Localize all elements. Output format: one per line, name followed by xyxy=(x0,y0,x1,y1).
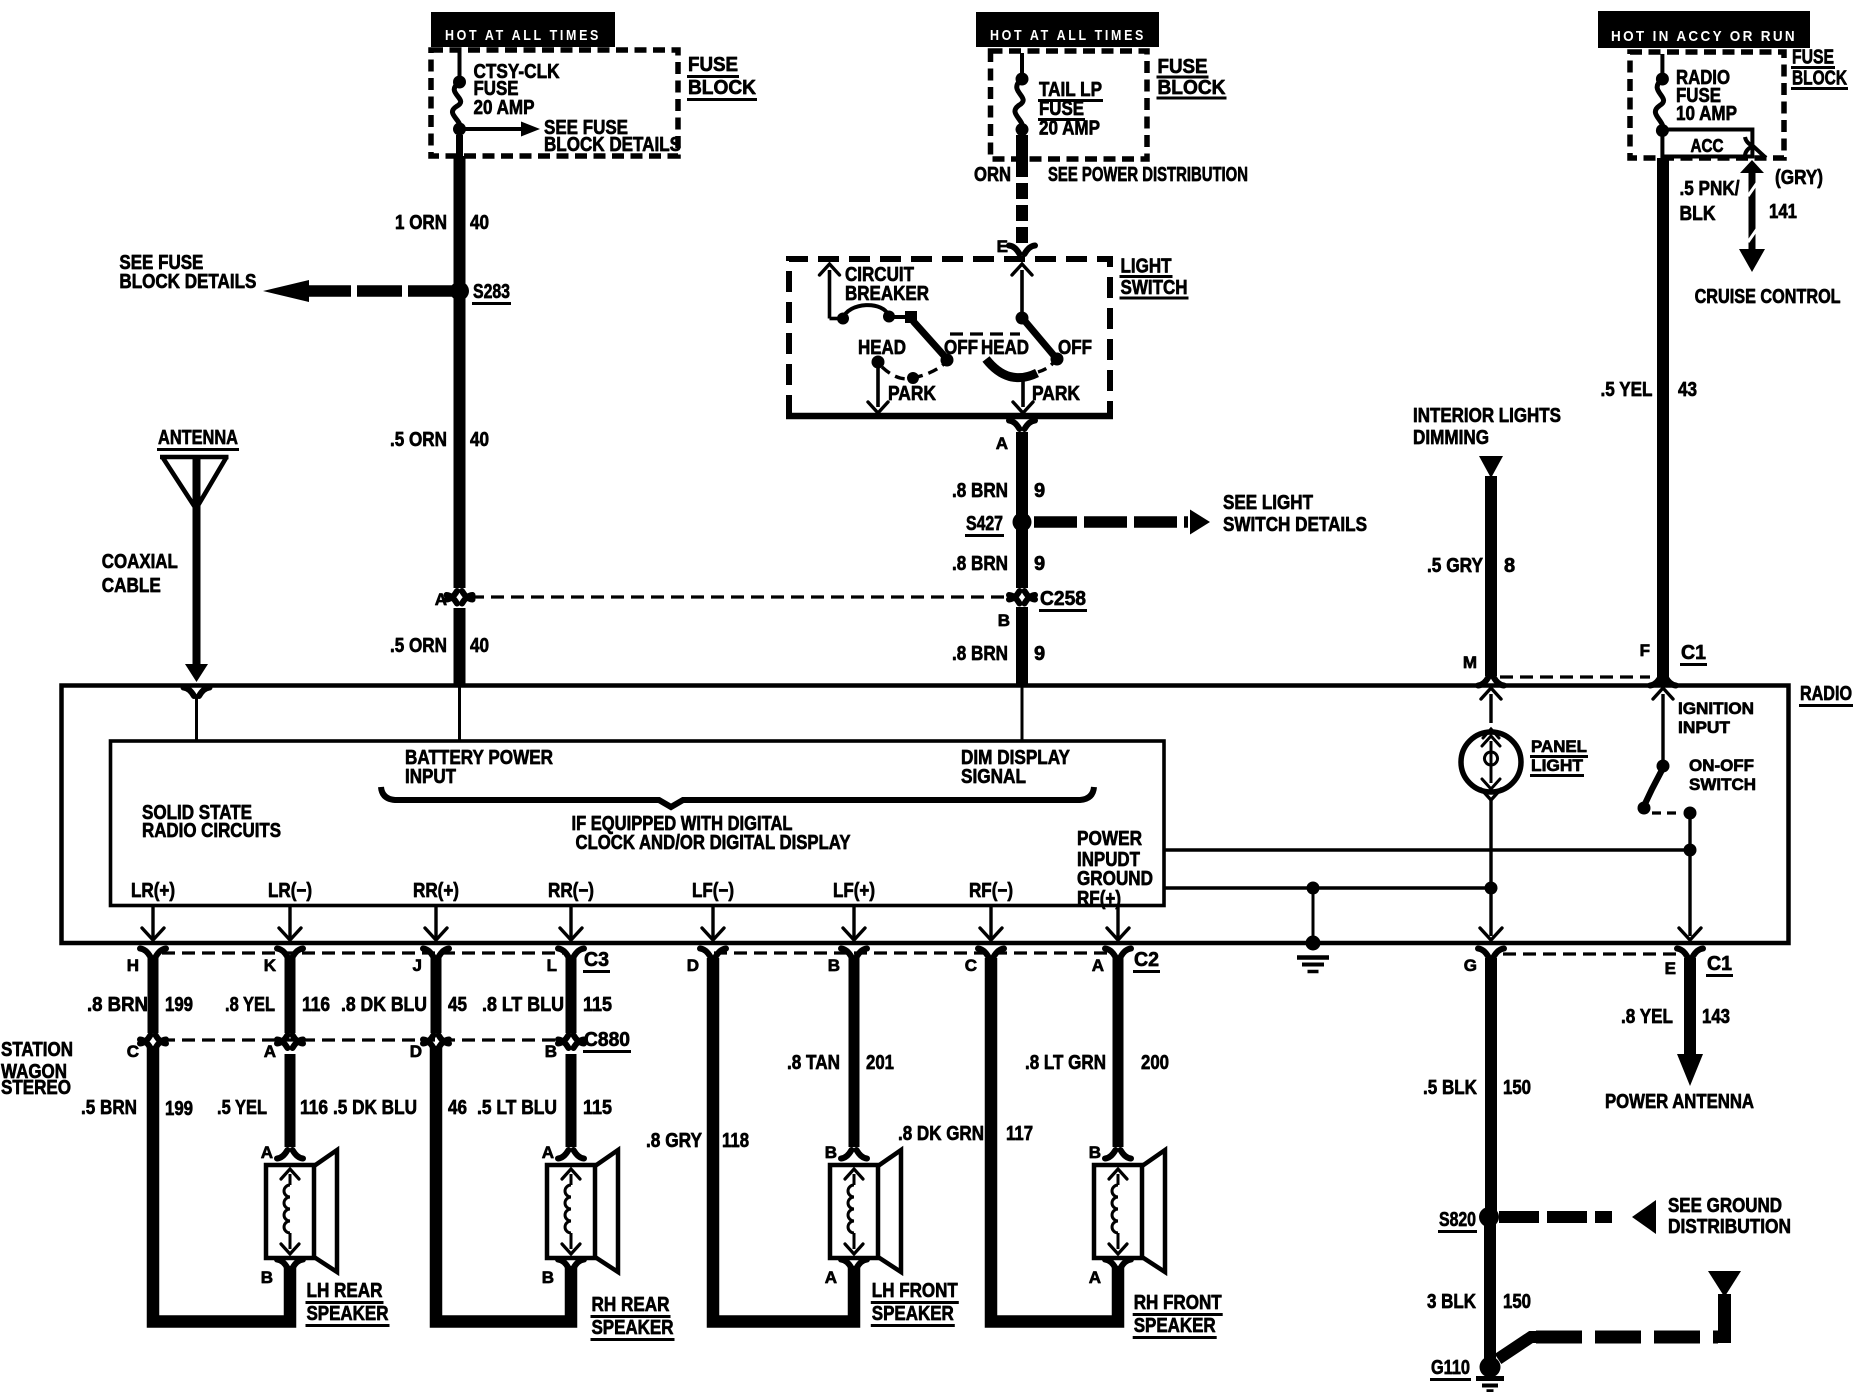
svg-text:HOT AT ALL TIMES: HOT AT ALL TIMES xyxy=(445,27,601,44)
label RADIO xyxy=(1799,683,1853,706)
radio internal line to on-off switch output xyxy=(1165,844,1697,857)
label FUSE BLOCK (right) xyxy=(1791,47,1848,90)
svg-text:117: 117 xyxy=(1006,1123,1033,1145)
panel light bulb xyxy=(1461,688,1521,940)
label CRUISE CONTROL xyxy=(1695,286,1841,308)
svg-text:BLOCK: BLOCK xyxy=(688,77,757,99)
pin label LF(+) xyxy=(833,880,875,902)
label FUSE BLOCK (left) xyxy=(687,54,757,100)
connector E at light switch xyxy=(997,237,1035,256)
svg-text:(GRY): (GRY) xyxy=(1775,167,1823,189)
svg-text:116: 116 xyxy=(302,994,330,1016)
svg-text:201: 201 xyxy=(866,1052,894,1074)
svg-text:SEE GROUND: SEE GROUND xyxy=(1668,1195,1782,1217)
svg-text:INTERIOR LIGHTS: INTERIOR LIGHTS xyxy=(1413,405,1561,427)
label PANEL LIGHT xyxy=(1530,737,1588,776)
svg-text:116: 116 xyxy=(300,1097,328,1119)
speaker RH FRONT xyxy=(1089,1143,1223,1338)
PARK output arrow (right) xyxy=(1013,378,1033,413)
svg-text:SEE LIGHT: SEE LIGHT xyxy=(1223,492,1313,514)
dashed line A to C258 xyxy=(471,595,1007,598)
label CTSY-CLK FUSE 20 AMP xyxy=(474,61,560,119)
wire .8 LT BLU 115 xyxy=(566,958,577,1033)
connector C (radio output) xyxy=(965,949,1004,976)
label .5 PNK/ BLK 141 xyxy=(1680,178,1798,225)
svg-text:SWITCH DETAILS: SWITCH DETAILS xyxy=(1223,514,1367,536)
connector row C1 dashed line (G to E) xyxy=(1503,952,1676,955)
ground G110 xyxy=(1430,1357,1504,1392)
radio outer box xyxy=(62,686,1789,944)
label IGNITION INPUT xyxy=(1678,699,1754,737)
svg-text:B: B xyxy=(261,1268,273,1287)
wire .5 ORN 40 (lower) xyxy=(454,608,466,685)
pin arrow LF(+) to connector xyxy=(843,907,865,940)
speaker RH REAR xyxy=(542,1143,675,1340)
thick travel arc HEAD-PARK (right) xyxy=(986,359,1037,378)
label COAXIAL CABLE xyxy=(102,551,178,597)
svg-text:141: 141 xyxy=(1769,201,1797,223)
svg-text:.8 YEL: .8 YEL xyxy=(1621,1006,1673,1028)
svg-text:ON-OFF: ON-OFF xyxy=(1689,756,1754,775)
dashed arrow SEE GROUND DISTRIBUTION xyxy=(1499,1200,1656,1234)
svg-text:LH REAR: LH REAR xyxy=(307,1280,383,1302)
fuse block box (middle, dashed) xyxy=(991,51,1148,159)
svg-text:SWITCH: SWITCH xyxy=(1121,277,1188,299)
svg-text:.8 YEL: .8 YEL xyxy=(225,994,275,1016)
svg-text:118: 118 xyxy=(722,1130,749,1152)
label (GRY) xyxy=(1775,167,1823,189)
connector F (C1) at radio xyxy=(1640,641,1707,686)
connector row C3 dashed line xyxy=(162,951,1110,954)
label .5 ORN 40 (upper) xyxy=(390,429,489,451)
svg-text:LR(+): LR(+) xyxy=(131,880,175,902)
svg-text:C2: C2 xyxy=(1134,949,1159,971)
svg-text:A: A xyxy=(1092,956,1104,975)
svg-text:S427: S427 xyxy=(966,513,1003,535)
svg-text:40: 40 xyxy=(470,635,489,657)
connector row C880 dashed line xyxy=(162,1038,560,1041)
svg-text:FUSE: FUSE xyxy=(1792,47,1834,69)
svg-text:9: 9 xyxy=(1034,553,1045,575)
svg-text:STATION: STATION xyxy=(1,1039,73,1061)
label .5 DK BLU 46 xyxy=(333,1097,467,1119)
svg-text:ANTENNA: ANTENNA xyxy=(158,427,238,449)
svg-text:199: 199 xyxy=(165,994,193,1016)
svg-text:200: 200 xyxy=(1141,1052,1169,1074)
svg-text:PARK: PARK xyxy=(1032,383,1080,405)
svg-text:J: J xyxy=(413,956,422,975)
dashed line M to F (C1) xyxy=(1500,675,1650,678)
wire .8 DK BLU 45 xyxy=(431,958,442,1033)
wire .8 YEL 143 (E to power antenna) xyxy=(1677,958,1703,1086)
wire .8 BRN 9 (light switch to radio) xyxy=(1016,432,1028,685)
svg-text:45: 45 xyxy=(448,994,467,1016)
svg-text:OFF: OFF xyxy=(1058,337,1092,359)
power feed label HOT AT ALL TIMES (middle) xyxy=(976,12,1159,47)
label .8 TAN 201 xyxy=(787,1052,894,1074)
svg-text:.8 LT GRN: .8 LT GRN xyxy=(1025,1052,1106,1074)
svg-text:115: 115 xyxy=(583,994,612,1016)
svg-text:S820: S820 xyxy=(1439,1209,1476,1231)
svg-text:.5 GRY: .5 GRY xyxy=(1427,555,1484,577)
wire .5 LT BLU 115 (B to RH rear speaker) xyxy=(566,1054,577,1147)
svg-text:A: A xyxy=(261,1143,273,1162)
svg-text:RADIO CIRCUITS: RADIO CIRCUITS xyxy=(142,820,281,842)
svg-text:RR(−): RR(−) xyxy=(548,880,594,902)
svg-text:BLOCK DETAILS: BLOCK DETAILS xyxy=(544,134,681,156)
svg-text:C3: C3 xyxy=(584,949,609,971)
svg-text:.8 BRN: .8 BRN xyxy=(952,643,1008,665)
dashed ground strap to body xyxy=(1498,1271,1741,1359)
label POWER INPUDT GROUND RF(+) xyxy=(1077,828,1153,910)
wire .8 YEL 116 xyxy=(285,958,296,1033)
wire 3 BLK 150 (S820 to G110) xyxy=(1484,1221,1496,1360)
label SEE LIGHT SWITCH DETAILS xyxy=(1223,492,1367,536)
wire .5 GRY 8 (dimming to radio M) xyxy=(1479,456,1503,676)
antenna connector inside radio xyxy=(184,688,210,742)
label FUSE BLOCK (middle) xyxy=(1157,56,1227,99)
svg-text:.5 YEL: .5 YEL xyxy=(1601,379,1653,401)
svg-text:.5 YEL: .5 YEL xyxy=(217,1097,267,1119)
svg-text:.5 DK BLU: .5 DK BLU xyxy=(333,1097,417,1119)
dashed arrow SEE LIGHT SWITCH DETAILS xyxy=(1034,510,1210,535)
radio internal ground symbol xyxy=(1297,888,1329,972)
wire battery input drop xyxy=(458,687,461,741)
label .8 DK BLU 45 xyxy=(341,994,467,1016)
connector D (C880) xyxy=(410,1035,449,1061)
svg-text:D: D xyxy=(687,956,699,975)
pin arrow LR(+) to connector xyxy=(142,907,164,940)
svg-text:.5 BLK: .5 BLK xyxy=(1423,1077,1477,1099)
connector E (power antenna C1) xyxy=(1665,949,1733,979)
svg-text:B: B xyxy=(825,1143,837,1162)
connector B (C880) xyxy=(545,1035,584,1061)
svg-text:B: B xyxy=(998,611,1010,630)
label 3 BLK 150 xyxy=(1427,1291,1531,1313)
connector C (C880) xyxy=(127,1035,166,1061)
connector A (radio output) xyxy=(1092,949,1131,976)
svg-text:20 AMP: 20 AMP xyxy=(1039,118,1100,140)
svg-text:BLK: BLK xyxy=(1680,203,1716,225)
connector D (radio output) xyxy=(687,949,726,976)
label .8 BRN 9 (upper) xyxy=(952,480,1045,502)
fuse block box (right, dashed) xyxy=(1630,52,1784,158)
svg-text:C1: C1 xyxy=(1707,953,1732,975)
svg-text:INPUT: INPUT xyxy=(1678,718,1731,737)
label .5 YEL 116 xyxy=(217,1097,328,1119)
svg-text:FUSE: FUSE xyxy=(688,54,738,76)
label TAIL LP FUSE 20 AMP xyxy=(1038,79,1103,140)
svg-text:G110: G110 xyxy=(1431,1357,1470,1379)
label .8 LT BLU 115 xyxy=(482,994,612,1016)
label INTERIOR LIGHTS DIMMING xyxy=(1413,405,1561,449)
label ORN / SEE POWER DISTRIBUTION xyxy=(974,164,1248,186)
wire .8 LT GRN 200 (A to RH front) xyxy=(1113,958,1124,1147)
label HEAD / OFF (left half) xyxy=(858,337,978,359)
fuse RADIO 10A xyxy=(1655,54,1669,137)
label .8 BRN 9 (middle) xyxy=(952,553,1045,575)
svg-text:IGNITION: IGNITION xyxy=(1678,699,1754,718)
svg-text:H: H xyxy=(127,956,139,975)
svg-text:RADIO: RADIO xyxy=(1800,683,1852,705)
svg-text:43: 43 xyxy=(1678,379,1697,401)
splice S820 xyxy=(1438,1207,1499,1232)
svg-text:HOT IN ACCY OR RUN: HOT IN ACCY OR RUN xyxy=(1611,28,1797,45)
svg-text:B: B xyxy=(1089,1143,1101,1162)
label BATTERY POWER INPUT xyxy=(405,747,553,788)
radio inner box (solid state radio circuits) xyxy=(111,741,1165,906)
svg-text:C: C xyxy=(965,956,977,975)
svg-text:RH FRONT: RH FRONT xyxy=(1134,1292,1222,1314)
svg-text:SWITCH: SWITCH xyxy=(1689,775,1756,794)
label STATION WAGON STEREO xyxy=(1,1039,73,1099)
label CIRCUIT BREAKER xyxy=(845,264,929,305)
svg-text:B: B xyxy=(828,956,840,975)
label .8 DK GRN 117 xyxy=(898,1123,1033,1145)
svg-text:LIGHT: LIGHT xyxy=(1121,256,1172,278)
connector A below light switch xyxy=(996,421,1035,454)
label .8 GRY 118 xyxy=(646,1130,749,1152)
pin arrow RF(+) to connector xyxy=(1107,907,1129,940)
pin arrow RR(+) to connector xyxy=(425,907,447,940)
label C3 xyxy=(583,949,610,972)
connector B (radio output) xyxy=(828,949,867,976)
svg-text:POWER ANTENNA: POWER ANTENNA xyxy=(1605,1091,1754,1113)
dashed link between switch halves xyxy=(950,332,1020,335)
svg-text:40: 40 xyxy=(470,212,489,234)
label .8 LT GRN 200 xyxy=(1025,1052,1169,1074)
label .5 ORN 40 (lower) xyxy=(390,635,489,657)
radio internal ground line xyxy=(1165,882,1498,895)
svg-text:.5 LT BLU: .5 LT BLU xyxy=(477,1097,557,1119)
svg-text:POWER: POWER xyxy=(1077,828,1142,850)
svg-text:LR(−): LR(−) xyxy=(268,880,312,902)
label .5 YEL 43 xyxy=(1601,379,1698,401)
svg-text:LH FRONT: LH FRONT xyxy=(872,1280,958,1302)
splice S427 xyxy=(965,513,1032,536)
label .5 BRN 199 xyxy=(81,1097,193,1120)
label .5 LT BLU 115 xyxy=(477,1097,612,1119)
svg-text:L: L xyxy=(547,956,557,975)
svg-text:9: 9 xyxy=(1034,643,1045,665)
svg-text:RF(+): RF(+) xyxy=(1077,888,1121,910)
svg-text:.8 BRN: .8 BRN xyxy=(952,480,1008,502)
svg-text:.8 TAN: .8 TAN xyxy=(787,1052,840,1074)
label SEE FUSE BLOCK DETAILS (left) xyxy=(119,252,256,293)
fuse TAIL LP 20A xyxy=(1015,53,1029,161)
switch wiper (left half) to OFF xyxy=(913,321,954,367)
svg-text:HOT AT ALL TIMES: HOT AT ALL TIMES xyxy=(990,27,1146,44)
svg-text:A: A xyxy=(542,1143,554,1162)
svg-text:RH REAR: RH REAR xyxy=(592,1294,670,1316)
pin label RF(−) xyxy=(969,880,1013,902)
label DIM DISPLAY SIGNAL xyxy=(961,747,1071,788)
svg-text:FUSE: FUSE xyxy=(1158,56,1208,78)
connector G (radio ground output) xyxy=(1464,949,1504,976)
connector L (radio output) xyxy=(547,949,584,976)
svg-text:143: 143 xyxy=(1702,1006,1730,1028)
svg-text:B: B xyxy=(545,1042,557,1061)
svg-text:BLOCK: BLOCK xyxy=(1158,77,1227,99)
svg-text:C: C xyxy=(127,1042,139,1061)
svg-text:K: K xyxy=(264,956,277,975)
svg-text:PARK: PARK xyxy=(888,383,936,405)
svg-text:.5 BRN: .5 BRN xyxy=(81,1097,137,1119)
power feed label HOT IN ACCY OR RUN xyxy=(1598,11,1810,48)
circuit breaker (arrow + contacts arc) xyxy=(820,264,918,325)
dashed travel arc with PARK contact (left) xyxy=(882,364,944,384)
svg-text:.8 BRN: .8 BRN xyxy=(952,553,1008,575)
svg-text:SPEAKER: SPEAKER xyxy=(307,1303,389,1325)
pin arrow RF(−) to connector xyxy=(980,907,1002,940)
arrow SEE FUSE BLOCK DETAILS (inside fuse block) xyxy=(463,117,681,156)
svg-text:199: 199 xyxy=(165,1098,193,1120)
speaker LH FRONT xyxy=(825,1143,959,1326)
svg-text:LIGHT: LIGHT xyxy=(1531,756,1584,775)
svg-text:G: G xyxy=(1464,956,1477,975)
power feed label HOT AT ALL TIMES (left) xyxy=(431,12,615,47)
svg-text:F: F xyxy=(1640,641,1650,660)
switch wiper (right half) to OFF xyxy=(1024,320,1064,366)
wire .8 BRN 199 xyxy=(148,958,159,1033)
connector H (radio output) xyxy=(127,949,166,976)
svg-text:M: M xyxy=(1463,653,1477,672)
svg-text:SPEAKER: SPEAKER xyxy=(1134,1315,1216,1337)
wire .5 PNK/BLK and .5 YEL (right feed to radio F) xyxy=(1657,158,1669,685)
svg-text:DIMMING: DIMMING xyxy=(1413,427,1489,449)
svg-text:PANEL: PANEL xyxy=(1531,737,1587,756)
svg-text:SIGNAL: SIGNAL xyxy=(961,766,1026,788)
svg-text:C258: C258 xyxy=(1040,588,1086,610)
svg-text:150: 150 xyxy=(1503,1077,1531,1099)
label ON-OFF SWITCH xyxy=(1689,756,1756,794)
label .8 YEL 116 xyxy=(225,994,330,1016)
svg-text:9: 9 xyxy=(1034,480,1045,502)
svg-text:HEAD: HEAD xyxy=(858,337,906,359)
label .8 YEL 143 xyxy=(1621,1006,1730,1028)
svg-text:STEREO: STEREO xyxy=(1,1077,71,1099)
svg-text:RR(+): RR(+) xyxy=(413,880,459,902)
svg-text:CRUISE CONTROL: CRUISE CONTROL xyxy=(1695,286,1841,308)
svg-text:OFF: OFF xyxy=(944,337,978,359)
dashed arc to OFF (right) xyxy=(1038,363,1053,372)
pin arrow LF(−) to connector xyxy=(702,907,724,940)
svg-text:150: 150 xyxy=(1503,1291,1531,1313)
wire ORN dashed from fuse to light switch xyxy=(1016,161,1028,243)
wire .5 BLK 150 (G to S820) xyxy=(1485,958,1497,1213)
svg-text:.8 LT BLU: .8 LT BLU xyxy=(482,994,564,1016)
connector at ACC output xyxy=(1745,137,1766,158)
label SOLID STATE RADIO CIRCUITS xyxy=(142,802,281,842)
label C2 xyxy=(1133,949,1160,972)
svg-text:B: B xyxy=(542,1268,554,1287)
fuse block box (left, dashed) xyxy=(431,50,678,156)
antenna symbol xyxy=(157,427,239,682)
svg-text:115: 115 xyxy=(583,1097,612,1119)
label .8 BRN 199 xyxy=(87,994,193,1016)
svg-text:A: A xyxy=(825,1268,837,1287)
switch input arrow (right half) xyxy=(1012,264,1032,325)
light switch box (dashed) xyxy=(786,259,1113,416)
connector A (C880) xyxy=(264,1035,303,1061)
svg-text:LF(−): LF(−) xyxy=(692,880,734,902)
terminal box ACC xyxy=(1662,130,1752,157)
svg-text:A: A xyxy=(1089,1268,1101,1287)
cruise control double arrow 141 xyxy=(1739,160,1765,272)
label .5 GRY 8 xyxy=(1427,555,1515,577)
svg-text:SPEAKER: SPEAKER xyxy=(872,1303,954,1325)
svg-text:.8 DK BLU: .8 DK BLU xyxy=(341,994,427,1016)
wire .5 YEL 116 (A to LH rear speaker) xyxy=(285,1054,296,1147)
svg-text:S283: S283 xyxy=(473,281,510,303)
wire .8 TAN 201 (B to LH front) xyxy=(849,958,860,1147)
svg-text:1 ORN: 1 ORN xyxy=(395,212,447,234)
connector M at radio xyxy=(1463,653,1504,686)
wire LH front return (D to speaker A) xyxy=(713,958,854,1322)
svg-text:INPUT: INPUT xyxy=(405,766,456,788)
svg-text:A: A xyxy=(264,1042,276,1061)
wire LH rear return (H to speaker B) xyxy=(153,1046,290,1322)
svg-text:40: 40 xyxy=(470,429,489,451)
svg-text:CLOCK AND/OR DIGITAL DISPLAY: CLOCK AND/OR DIGITAL DISPLAY xyxy=(576,832,852,854)
pin label RR(−) xyxy=(548,880,594,902)
connector A on ORN wire xyxy=(435,590,473,609)
label .8 BRN 9 (lower) xyxy=(952,643,1045,665)
svg-text:GROUND: GROUND xyxy=(1077,868,1153,890)
svg-text:BLOCK DETAILS: BLOCK DETAILS xyxy=(119,271,256,293)
svg-text:HEAD: HEAD xyxy=(981,337,1029,359)
label IF EQUIPPED WITH DIGITAL CLOCK AND/OR DIGITAL DISPLAY xyxy=(572,813,852,854)
connector C258 xyxy=(998,588,1087,630)
svg-text:.8 GRY: .8 GRY xyxy=(646,1130,703,1152)
svg-text:46: 46 xyxy=(448,1097,467,1119)
svg-text:.5 ORN: .5 ORN xyxy=(390,429,447,451)
label HEAD / OFF (right half) xyxy=(981,337,1092,359)
svg-text:COAXIAL: COAXIAL xyxy=(102,551,178,573)
svg-text:.8 BRN: .8 BRN xyxy=(87,994,148,1016)
pin arrow RR(−) to connector xyxy=(560,907,582,940)
label LIGHT SWITCH xyxy=(1120,256,1189,300)
pin label RR(+) xyxy=(413,880,459,902)
fuse CTSY-CLK 20A xyxy=(452,52,466,158)
pin label LF(−) xyxy=(692,880,734,902)
label 1 ORN 40 xyxy=(395,212,489,234)
label C880 xyxy=(583,1029,631,1052)
label PARK (left) xyxy=(888,383,936,405)
brace IF EQUIPPED note xyxy=(381,787,1094,807)
contact HEAD (left) and PARK arrow xyxy=(868,356,888,414)
dashed arrow SEE FUSE BLOCK DETAILS xyxy=(263,280,452,302)
connector K (radio output) xyxy=(264,949,303,976)
svg-text:ORN: ORN xyxy=(974,164,1011,186)
svg-text:E: E xyxy=(1665,959,1676,978)
svg-text:3 BLK: 3 BLK xyxy=(1427,1291,1476,1313)
svg-text:D: D xyxy=(410,1042,422,1061)
svg-text:.5 ORN: .5 ORN xyxy=(390,635,447,657)
svg-text:ACC: ACC xyxy=(1691,136,1724,156)
pin label LR(+) xyxy=(131,880,175,902)
svg-text:.5 PNK/: .5 PNK/ xyxy=(1680,178,1740,200)
label SEE GROUND DISTRIBUTION xyxy=(1668,1195,1791,1238)
svg-text:C880: C880 xyxy=(584,1029,630,1051)
svg-text:CABLE: CABLE xyxy=(102,575,161,597)
svg-text:BREAKER: BREAKER xyxy=(845,283,929,305)
splice S283 xyxy=(450,281,511,304)
svg-text:SPEAKER: SPEAKER xyxy=(592,1317,674,1339)
svg-text:8: 8 xyxy=(1504,555,1515,577)
svg-text:.8 DK GRN: .8 DK GRN xyxy=(898,1123,984,1145)
label PARK (right) xyxy=(1032,383,1080,405)
